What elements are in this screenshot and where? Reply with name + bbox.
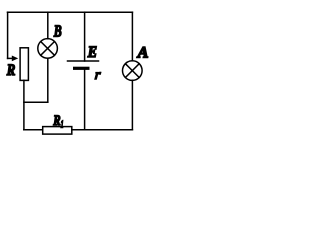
wire bottom bus right of R1	[72, 129, 133, 131]
wire battery branch lower	[84, 70, 86, 130]
wire lamp B branch upper	[47, 12, 49, 39]
label A	[137, 45, 149, 62]
wire from rheostat bottom down	[23, 80, 25, 129]
svg-text:E: E	[87, 44, 97, 61]
battery E positive plate	[68, 60, 99, 62]
svg-text:R: R	[52, 113, 60, 129]
lamp B	[38, 39, 58, 59]
resistor (rheostat) R body	[20, 48, 28, 81]
slider arrow of rheostat R	[12, 56, 18, 62]
wire bottom bus left of R1	[24, 129, 43, 131]
wire battery branch upper	[84, 12, 86, 61]
label R1	[52, 113, 63, 130]
svg-text:A: A	[137, 45, 149, 62]
svg-text:1: 1	[61, 118, 64, 130]
wire right vertical upper	[131, 12, 133, 61]
wire top bus	[8, 11, 133, 13]
label r	[94, 67, 102, 83]
svg-text:B: B	[53, 21, 62, 40]
resistor R1 body	[43, 127, 72, 135]
lamp A	[123, 61, 143, 81]
label R	[6, 62, 16, 79]
wire right vertical lower	[131, 80, 133, 129]
battery E negative plate	[73, 67, 90, 70]
svg-text:R: R	[6, 62, 16, 79]
wire lamp B branch lower	[47, 58, 49, 102]
svg-text:r: r	[94, 67, 102, 83]
wire junction horizontal (rheostat branch to lamp B branch)	[24, 101, 48, 103]
label B	[53, 21, 62, 40]
wire rheostat slider lead	[8, 57, 13, 59]
wire left vertical	[7, 12, 9, 58]
label E	[87, 44, 97, 61]
